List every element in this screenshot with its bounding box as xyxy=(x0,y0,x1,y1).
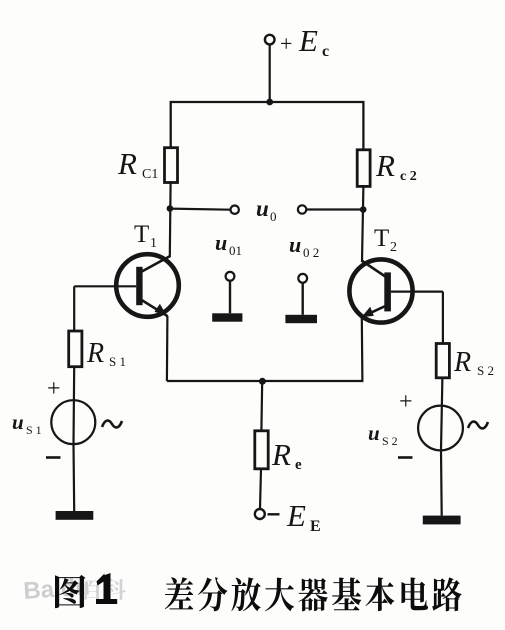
svg-text:c: c xyxy=(322,43,329,60)
wire RS1 to source us1 xyxy=(72,367,75,445)
svg-text:E: E xyxy=(286,498,306,533)
label RC2 xyxy=(375,148,417,184)
label -EE xyxy=(268,498,321,535)
wire top rail xyxy=(171,102,364,151)
wire u01 to ground xyxy=(229,281,231,314)
svg-text:T: T xyxy=(134,221,149,248)
svg-text:u: u xyxy=(12,410,24,434)
svg-text:u: u xyxy=(368,421,380,445)
ground us2 xyxy=(423,516,461,525)
wire T2 emitter down xyxy=(361,318,364,382)
svg-text:S 1: S 1 xyxy=(109,354,126,369)
svg-text:0 2: 0 2 xyxy=(303,245,319,260)
terminal +Ec xyxy=(265,35,275,45)
wire us1 to ground xyxy=(72,444,75,511)
svg-text:1: 1 xyxy=(150,236,157,251)
terminal u0 left xyxy=(231,206,239,214)
svg-text:+: + xyxy=(47,376,61,402)
wire T2 base xyxy=(391,291,443,293)
wire bottom rail xyxy=(167,380,364,382)
svg-text:01: 01 xyxy=(229,243,242,258)
svg-text:0: 0 xyxy=(270,209,277,224)
resistor RC1 xyxy=(165,148,178,183)
source us1 xyxy=(51,400,95,444)
label T1 xyxy=(134,221,157,251)
wire RC1 to T1 collector xyxy=(169,183,172,258)
wire u0 right xyxy=(306,208,363,210)
svg-text:R: R xyxy=(453,347,471,378)
ground u02 xyxy=(285,315,317,323)
label RC1 xyxy=(117,146,158,182)
label minus us1 xyxy=(46,456,61,459)
wire us2 to ground xyxy=(440,450,443,516)
junction u0 left tap xyxy=(167,205,174,212)
svg-text:u: u xyxy=(289,232,301,257)
ground u01 xyxy=(212,313,242,321)
caption figure number xyxy=(55,575,85,608)
junction bottom rail xyxy=(259,378,266,385)
label us1 xyxy=(12,410,42,437)
terminal u01 xyxy=(226,272,235,281)
wire u02 to ground xyxy=(302,283,304,315)
wire Re to EE terminal xyxy=(260,469,261,509)
svg-text:u: u xyxy=(256,196,269,221)
svg-text:c 2: c 2 xyxy=(400,169,417,184)
transistor T1 xyxy=(116,254,179,317)
svg-text:S 2: S 2 xyxy=(382,434,398,448)
resistor RS2 xyxy=(436,344,449,378)
label us2 xyxy=(368,421,398,448)
wire RC2 to T2 collector xyxy=(362,186,363,261)
terminal u0 right xyxy=(298,205,306,213)
source us2 xyxy=(418,406,463,451)
wire T1 emitter down xyxy=(166,316,169,381)
caption title xyxy=(165,577,193,609)
resistor RC2 xyxy=(357,150,370,187)
svg-text:R: R xyxy=(117,146,137,181)
svg-text:S 1: S 1 xyxy=(26,423,42,437)
wire base down to RS1 xyxy=(73,286,75,331)
svg-text:S 2: S 2 xyxy=(477,363,494,378)
label minus us2 xyxy=(398,456,413,459)
junction top rail center xyxy=(266,99,273,106)
label u01 xyxy=(215,230,242,258)
label u02 xyxy=(289,232,319,260)
label T2 xyxy=(374,225,397,255)
svg-text:e: e xyxy=(295,457,302,473)
terminal u02 xyxy=(298,274,307,283)
ground us1 xyxy=(56,511,94,520)
wire rail to Re xyxy=(260,381,263,431)
svg-text:E: E xyxy=(298,23,318,58)
svg-text:2: 2 xyxy=(390,240,397,255)
wire base down to RS2 xyxy=(442,292,444,344)
svg-text:T: T xyxy=(374,225,389,252)
label Re xyxy=(271,437,302,473)
label +Ec xyxy=(280,23,329,60)
label RS1 xyxy=(86,338,126,369)
svg-text:R: R xyxy=(375,148,395,183)
junction u0 right tap xyxy=(360,206,367,213)
resistor Re xyxy=(255,431,268,469)
wire Ec to top rail xyxy=(269,44,271,102)
svg-text:u: u xyxy=(215,230,227,255)
svg-text:R: R xyxy=(271,437,291,472)
label sine us1 xyxy=(102,421,122,428)
terminal -EE xyxy=(255,509,265,519)
svg-text:+: + xyxy=(399,389,413,415)
wire T1 base xyxy=(74,285,136,287)
svg-text:C1: C1 xyxy=(142,167,158,182)
label u0 xyxy=(256,196,277,224)
wire u0 left xyxy=(170,209,230,210)
transistor T2 xyxy=(349,259,412,322)
resistor RS1 xyxy=(69,331,82,367)
wire RS2 to source us2 xyxy=(441,378,442,450)
svg-text:R: R xyxy=(86,338,104,369)
label sine us2 xyxy=(468,422,488,429)
label RS2 xyxy=(453,347,494,378)
svg-text:+: + xyxy=(280,31,292,56)
svg-text:E: E xyxy=(310,518,321,535)
